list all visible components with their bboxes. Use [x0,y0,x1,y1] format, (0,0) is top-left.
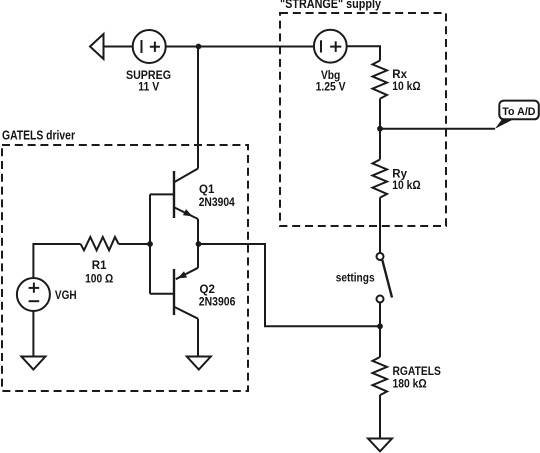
svg-text:100 Ω: 100 Ω [85,273,113,285]
ground below Q2 [187,357,211,370]
wire VGH top to R1 [33,244,80,278]
"STRANGE" supply enclosure box [280,13,446,226]
svg-text:VGH: VGH [55,288,77,302]
wire RGATELS to ground [379,395,381,438]
svg-text:10 kΩ: 10 kΩ [392,180,420,192]
svg-text:Ry: Ry [392,168,407,180]
R1 value label 100 Ohm [85,273,113,285]
svg-text:2N3904: 2N3904 [199,197,236,209]
transistor Q1 2N3904 [174,169,198,245]
Q2 name label [200,284,215,296]
node junction at SUPREG rail [196,44,202,50]
wire SUPREG to Vbg [166,46,314,48]
wire lower junction down to RGATELS [379,326,381,357]
wire divider node down to Ry [379,129,381,160]
svg-text:settings: settings [336,273,375,285]
net flag To A/D [495,101,539,129]
ground below VGH [21,357,45,370]
"STRANGE" supply box label [280,0,382,11]
resistor Ry [373,160,388,198]
svg-text:To A/D: To A/D [502,106,535,118]
svg-text:1.25 V: 1.25 V [316,82,346,94]
voltage source SUPREG [133,30,166,63]
SUPREG name label [126,68,171,82]
Rx value label 10 kOhm [392,81,420,93]
svg-text:Q2: Q2 [200,284,215,296]
wire base rail vertical [149,194,151,293]
wire arrow to SUPREG source [104,46,133,48]
Q1 part label 2N3904 [199,197,236,209]
wire Ry bottom to switch [379,198,381,253]
Q1 name label [199,184,215,196]
svg-text:"STRANGE" supply: "STRANGE" supply [280,0,382,11]
node divider junction [377,126,383,132]
svg-text:RGATELS: RGATELS [393,366,442,378]
wire R1 to base junction [119,243,150,245]
R1 name label [92,260,107,272]
net flag arrow SUPREG [90,34,104,59]
wire Vbg to Rx top corner [347,46,380,60]
voltage source VGH [17,278,50,311]
node emitters junction [196,241,202,247]
svg-text:10 kΩ: 10 kΩ [392,81,420,93]
VGH name label [55,288,77,302]
resistor RGATELS [373,357,388,395]
svg-text:Vbg: Vbg [321,70,340,82]
Ry value label 10 kOhm [392,180,420,192]
switch label settings [336,273,375,285]
wire Rx bottom to divider node [379,99,381,129]
svg-text:GATELS driver: GATELS driver [2,127,75,142]
wire base rail to Q1 base [150,193,174,195]
RGATELS name label [393,366,442,378]
node lower junction [377,323,383,329]
Q2 part label 2N3906 [199,297,236,309]
GATELS driver enclosure box [2,145,248,391]
wire switch bottom to lower junction [379,303,381,327]
wire base rail to Q2 base [150,293,174,295]
resistor Rx [373,61,388,99]
RGATELS value label 180 kOhm [393,379,427,391]
wire divider node to A/D flag [380,128,495,130]
svg-text:R1: R1 [92,260,107,272]
voltage source Vbg [314,30,347,63]
svg-text:180 kΩ: 180 kΩ [393,379,427,391]
svg-text:11 V: 11 V [138,80,159,94]
wire emitters node to lower junction [199,244,381,326]
node base junction [147,241,153,247]
wire VGH bottom to ground [32,311,34,357]
GATELS driver box label [2,127,75,142]
ground below RGATELS [368,439,392,452]
SUPREG value label 11 V [138,80,159,94]
Ry name label [392,168,407,180]
Vbg value label 1.25 V [316,82,346,94]
Vbg name label [321,70,340,82]
resistor R1 [81,237,119,250]
wire SUPREG rail down to Q1 collector [197,47,199,169]
svg-text:Q1: Q1 [199,184,215,196]
Rx name label [392,69,407,81]
svg-text:Rx: Rx [392,69,407,81]
switch settings [377,253,393,303]
transistor Q2 2N3906 [174,244,198,356]
svg-text:2N3906: 2N3906 [199,297,236,309]
